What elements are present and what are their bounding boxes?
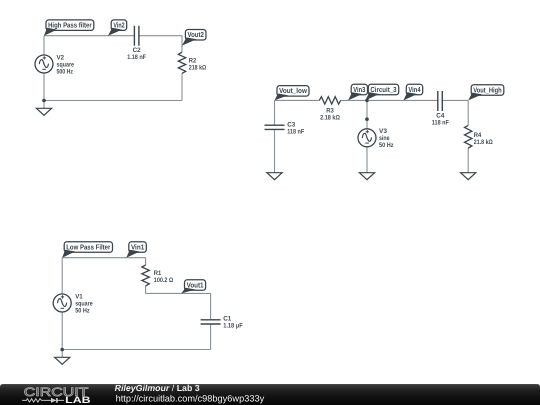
svg-text:Vout2: Vout2 (188, 30, 204, 39)
svg-text:118 nF: 118 nF (287, 129, 304, 136)
svg-text:V2: V2 (57, 54, 65, 61)
ground (267, 173, 282, 180)
wire (62, 257, 145, 259)
flag Vin4 (403, 84, 422, 100)
wire (43, 73, 45, 101)
logo diode (43, 398, 64, 403)
svg-text:C2: C2 (133, 47, 141, 54)
wire (181, 36, 183, 53)
svg-text:50 Hz: 50 Hz (379, 142, 394, 149)
wire (43, 36, 45, 55)
ground (359, 173, 374, 180)
ground (461, 173, 476, 180)
svg-text:1.18 nF: 1.18 nF (127, 54, 146, 61)
svg-text:V3: V3 (379, 128, 387, 135)
wire (61, 350, 63, 358)
capacitor C3 (265, 122, 305, 136)
wire (61, 258, 63, 294)
resistor R1 (142, 265, 173, 286)
logo CIRCUIT text (24, 385, 89, 399)
voltage source V1 (53, 293, 93, 314)
flag Low Pass Filter (62, 242, 112, 258)
svg-text:2.18 kΩ: 2.18 kΩ (320, 115, 340, 122)
resistor R4 (465, 125, 493, 148)
wire (467, 148, 469, 173)
wire (181, 73, 183, 100)
svg-text:RileyGilmour / Lab 3: RileyGilmour / Lab 3 (115, 383, 200, 393)
svg-text:Vout_low: Vout_low (279, 86, 307, 95)
svg-text:sine: sine (379, 135, 390, 142)
svg-text:C3: C3 (287, 122, 295, 129)
resistor R3 (319, 97, 340, 122)
svg-text:LAB: LAB (65, 395, 91, 405)
flag Vin1 (126, 242, 146, 258)
svg-text:R2: R2 (189, 58, 197, 65)
wire (366, 147, 368, 173)
flag Vout2 (182, 30, 206, 46)
svg-text:R3: R3 (326, 108, 334, 115)
wire (366, 100, 368, 128)
wire (442, 99, 468, 101)
svg-text:Vin1: Vin1 (131, 242, 144, 251)
capacitor C1 (201, 316, 243, 330)
wire (274, 100, 276, 125)
svg-text:Vin4: Vin4 (408, 85, 421, 94)
wire (145, 258, 147, 265)
flag Vout_High (468, 85, 504, 101)
wire (44, 100, 182, 102)
node junction (365, 99, 369, 103)
footer url (116, 394, 265, 404)
flag Vout_low (275, 86, 310, 101)
logo LAB text (65, 395, 91, 405)
flag High Pass filter (44, 20, 94, 36)
svg-text:R4: R4 (474, 132, 482, 139)
voltage source V3 (358, 128, 394, 149)
svg-text:50 Hz: 50 Hz (75, 307, 90, 314)
wire (61, 312, 63, 350)
svg-text:1.18 μF: 1.18 μF (223, 323, 243, 330)
svg-text:R1: R1 (154, 270, 162, 277)
capacitor C2 (127, 26, 146, 61)
wire (62, 349, 210, 351)
wire (145, 286, 147, 294)
svg-text:Circuit_3: Circuit_3 (370, 85, 396, 94)
svg-text:500 Hz: 500 Hz (57, 68, 74, 75)
flag Vin3 (348, 84, 368, 100)
flag Circuit_3 (365, 84, 398, 100)
svg-text:High Pass filter: High Pass filter (48, 21, 92, 30)
svg-text:Vin3: Vin3 (353, 85, 365, 94)
svg-text:Vout1: Vout1 (187, 280, 204, 289)
svg-text:Vout_High: Vout_High (473, 85, 501, 94)
logo resistor zigzag (22, 399, 43, 402)
svg-text:V1: V1 (75, 293, 83, 300)
node junction (365, 117, 369, 121)
voltage source V2 (35, 54, 74, 75)
svg-text:Vin2: Vin2 (113, 21, 124, 30)
svg-text:21.8 kΩ: 21.8 kΩ (474, 139, 493, 146)
svg-text:http://circuitlab.com/c98bgy6w: http://circuitlab.com/c98bgy6wp333y (116, 394, 265, 404)
resistor R2 (178, 52, 206, 73)
svg-text:100.2 Ω: 100.2 Ω (154, 277, 174, 284)
wire (467, 100, 469, 125)
wire (210, 324, 212, 350)
flag Vin2 (108, 20, 127, 36)
svg-text:square: square (75, 300, 93, 307)
svg-text:C4: C4 (436, 113, 444, 120)
svg-text:218 kΩ: 218 kΩ (189, 65, 207, 72)
wire (43, 101, 45, 109)
wire (210, 293, 212, 319)
wire (44, 35, 134, 37)
node junction (42, 99, 46, 103)
capacitor C4 (432, 91, 449, 127)
footer title RileyGilmour / Lab 3 (115, 383, 200, 393)
svg-text:square: square (57, 61, 75, 68)
flag Vout1 (181, 280, 205, 294)
wire (139, 35, 182, 37)
ground (55, 357, 70, 364)
ground (36, 108, 51, 115)
node junction (60, 348, 64, 352)
wire (274, 129, 276, 172)
svg-text:Low Pass Filter: Low Pass Filter (66, 242, 110, 251)
wire (146, 292, 211, 294)
svg-text:C1: C1 (223, 316, 231, 323)
wire (275, 99, 320, 101)
footer bar (0, 384, 540, 405)
wire (341, 99, 438, 101)
svg-text:118 nF: 118 nF (432, 120, 449, 127)
